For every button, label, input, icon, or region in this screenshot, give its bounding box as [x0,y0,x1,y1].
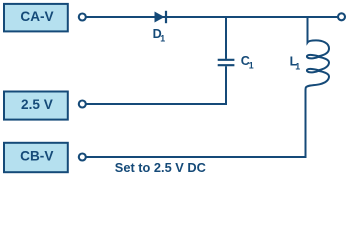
svg-text:CA-V: CA-V [20,9,53,24]
svg-text:CB-V: CB-V [20,149,53,164]
terminal 2.5V [79,101,86,108]
svg-text:1: 1 [160,33,165,43]
capacitor C1 [218,60,235,65]
wire 2.5V to capacitor bottom [86,66,226,104]
terminal CB-V [79,154,86,161]
svg-text:Set to 2.5 V DC: Set to 2.5 V DC [115,160,206,175]
box CA-V [4,4,68,32]
wire bottom (CB-V to inductor) [86,156,307,158]
terminal CA-V [79,14,86,21]
diode D1 [155,11,167,23]
label L1 [290,55,301,72]
wire top (CA-V to output) [86,16,338,18]
wire capacitor stem top [225,17,227,59]
inductor L1 [306,17,330,157]
box 2.5 V [4,92,68,120]
svg-text:1: 1 [295,61,300,71]
label C1 [241,54,254,70]
label D1 [153,27,166,44]
terminal output top-right [338,13,345,20]
box CB-V [4,143,68,172]
svg-text:2.5 V: 2.5 V [21,97,53,112]
svg-text:1: 1 [249,60,254,70]
